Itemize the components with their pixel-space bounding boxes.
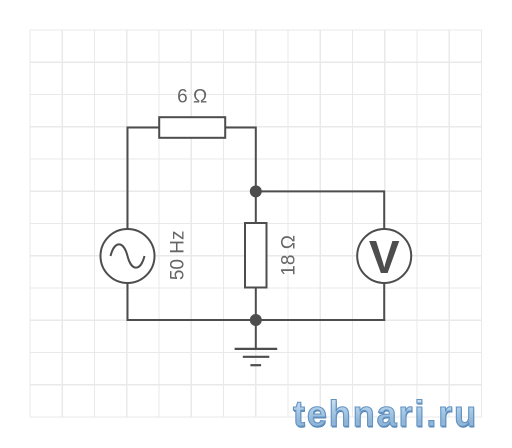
wire bottom horizontal bbox=[127, 319, 386, 321]
wire top-right horizontal (right of R1) bbox=[225, 127, 256, 129]
voltmeter M1 circle bbox=[357, 229, 411, 283]
wire right branch upper (to voltmeter) bbox=[383, 190, 385, 229]
resistor R2 18 ohm body bbox=[245, 223, 267, 288]
wire mid horizontal (node A to voltmeter branch) bbox=[256, 190, 384, 192]
svg-text:tehnari.ru: tehnari.ru bbox=[293, 393, 478, 434]
wire top-left horizontal (left of R1) bbox=[128, 127, 160, 129]
grid background bbox=[30, 30, 482, 417]
node B junction dot bbox=[250, 314, 262, 326]
resistor R1 6 ohm body bbox=[159, 117, 225, 138]
wire right branch lower (voltmeter to bottom wire) bbox=[383, 283, 385, 321]
svg-text:V: V bbox=[369, 231, 400, 283]
AC source V1 circle bbox=[101, 229, 155, 283]
ground symbol bbox=[235, 349, 278, 365]
node A junction dot bbox=[250, 185, 262, 197]
wire left branch upper (source to top corner) bbox=[127, 127, 129, 230]
svg-text:50 Hz: 50 Hz bbox=[167, 230, 188, 280]
svg-text:6 Ω: 6 Ω bbox=[177, 87, 207, 108]
wire middle branch lower (R2 to bottom node) bbox=[255, 288, 257, 321]
svg-text:18 Ω: 18 Ω bbox=[279, 235, 300, 276]
AC source sine wave bbox=[111, 244, 145, 267]
wire middle branch upper (top corner to R2) bbox=[255, 127, 257, 224]
wire left branch lower (source to bottom corner) bbox=[127, 283, 129, 321]
ground stem wire bbox=[255, 320, 257, 349]
